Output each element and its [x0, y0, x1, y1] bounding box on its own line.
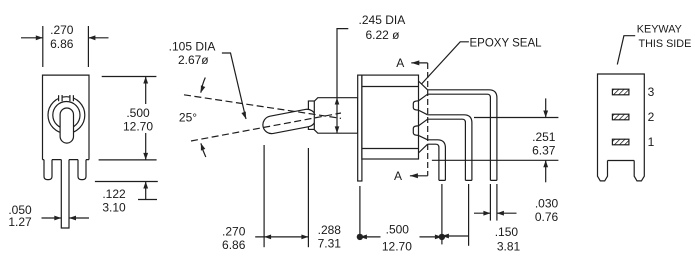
svg-text:7.31: 7.31: [318, 237, 342, 251]
terminal 3 (hatched): [612, 89, 629, 95]
.251 dimension: extension lines: [474, 117, 558, 119]
KEYWAY leader: [617, 36, 635, 65]
svg-text:.030: .030: [535, 197, 559, 211]
svg-text:.270: .270: [222, 225, 246, 239]
keyway notch right: [70, 95, 74, 102]
dimension .150: [442, 235, 469, 237]
svg-text:0.76: 0.76: [535, 210, 559, 224]
left pin (front): [44, 160, 52, 180]
dimension .030: [474, 212, 490, 214]
right pin (end view): [634, 161, 644, 181]
section line A-A (dashed): [427, 63, 429, 176]
svg-text:6.37: 6.37: [532, 144, 556, 158]
toggle lever (side, tilted stadium): [261, 108, 317, 135]
dimension .270 top: extension lines: [42, 26, 44, 67]
svg-text:A: A: [394, 169, 402, 183]
.245 DIA leader: [337, 29, 348, 98]
svg-text:.500: .500: [386, 223, 410, 237]
epoxy seal notch lower: [413, 126, 418, 135]
svg-text:1.27: 1.27: [8, 215, 32, 229]
switch body (side): [362, 75, 419, 159]
bottom extension lines: [263, 145, 265, 247]
bushing (side): [314, 98, 357, 134]
svg-text:2: 2: [648, 110, 655, 124]
terminal pin 1 (bottom, bent): [428, 140, 446, 181]
dimension .270 (side view): [255, 236, 308, 238]
toggle lever (front): [60, 108, 73, 143]
svg-text:6.86: 6.86: [50, 37, 74, 51]
body inner line bottom: [362, 148, 419, 150]
svg-text:.150: .150: [495, 225, 519, 239]
section arrow bottom: [410, 175, 428, 177]
terminal pin 3 (top, bent): [428, 90, 497, 181]
body (end view): [598, 74, 645, 161]
svg-text:12.70: 12.70: [123, 120, 153, 134]
svg-text:A: A: [396, 56, 404, 70]
svg-text:KEYWAY: KEYWAY: [637, 23, 682, 35]
dimension .500 (side view): [420, 236, 442, 238]
bushing inner ring: [53, 102, 80, 129]
dimension .500 left-view: extension lines: [102, 76, 157, 78]
.251 arrows: [545, 98, 547, 117]
body inner line top: [362, 86, 419, 88]
lever centerline (dashed): [191, 113, 341, 141]
svg-text:2.67ø: 2.67ø: [178, 53, 209, 67]
25 deg arc arrow upper: [201, 78, 206, 93]
dimension .288 right arrow (shared with .500 datum): [360, 236, 381, 238]
middle pin (front, long): [61, 160, 69, 228]
svg-text:3: 3: [648, 85, 655, 99]
epoxy seal notch upper: [413, 101, 418, 110]
bushing outer ring: [48, 97, 85, 134]
svg-text:.270: .270: [50, 23, 74, 37]
svg-text:THIS SIDE: THIS SIDE: [639, 38, 692, 50]
svg-text:.288: .288: [318, 223, 342, 237]
EPOXY SEAL leader: [422, 42, 469, 84]
switch body front view: [43, 75, 90, 160]
left pin (end view): [598, 161, 608, 181]
epoxy seal funnels: [418, 81, 427, 101]
svg-text:.122: .122: [102, 187, 126, 201]
svg-text:1: 1: [648, 135, 655, 149]
terminal pin 2 (middle, bent): [428, 115, 472, 181]
svg-text:12.70: 12.70: [382, 240, 412, 254]
svg-text:6.22 ø: 6.22 ø: [365, 28, 400, 42]
section arrow top: [411, 62, 427, 64]
dimension .500 left-view: dimension line with arrows: [145, 77, 147, 105]
svg-text:EPOXY SEAL: EPOXY SEAL: [470, 37, 543, 49]
dimension .270 top: arrows: [21, 37, 43, 39]
datum dots: [357, 234, 363, 240]
throw line upper (dashed): [184, 95, 341, 119]
terminal 2 (hatched): [612, 114, 629, 120]
dimension .050: arrows at middle pin: [42, 217, 62, 219]
25 deg arc arrow lower: [201, 143, 206, 157]
svg-text:.105 DIA: .105 DIA: [169, 39, 216, 53]
svg-text:.500: .500: [126, 106, 150, 120]
svg-text:.251: .251: [532, 130, 556, 144]
lever boss: [308, 101, 314, 129]
mounting plate: [358, 75, 362, 181]
dimension .122: extension line and leader: [95, 181, 158, 183]
svg-text:3.10: 3.10: [102, 201, 126, 215]
svg-text:3.81: 3.81: [497, 239, 521, 253]
svg-text:6.86: 6.86: [222, 238, 246, 252]
right pin (front): [78, 160, 86, 180]
keyway notch left: [59, 95, 63, 102]
svg-text:.245 DIA: .245 DIA: [359, 13, 406, 27]
.105 DIA leader: [222, 53, 246, 119]
terminal 1 (hatched): [612, 139, 629, 145]
svg-text:25°: 25°: [179, 111, 197, 125]
